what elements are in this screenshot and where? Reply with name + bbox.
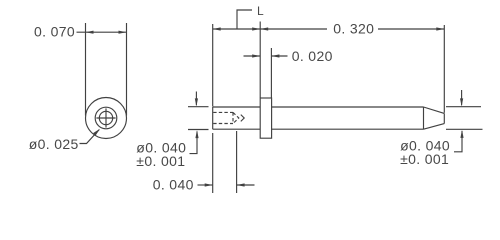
svg-text:±0. 001: ±0. 001	[400, 151, 449, 167]
svg-text:L: L	[257, 4, 264, 18]
svg-text:±0. 001: ±0. 001	[136, 153, 185, 169]
svg-text:0. 320: 0. 320	[333, 21, 374, 37]
svg-text:0. 070: 0. 070	[34, 23, 75, 39]
svg-text:0. 020: 0. 020	[292, 48, 333, 64]
svg-text:0. 040: 0. 040	[153, 176, 194, 192]
svg-text:ø0. 025: ø0. 025	[29, 136, 79, 152]
